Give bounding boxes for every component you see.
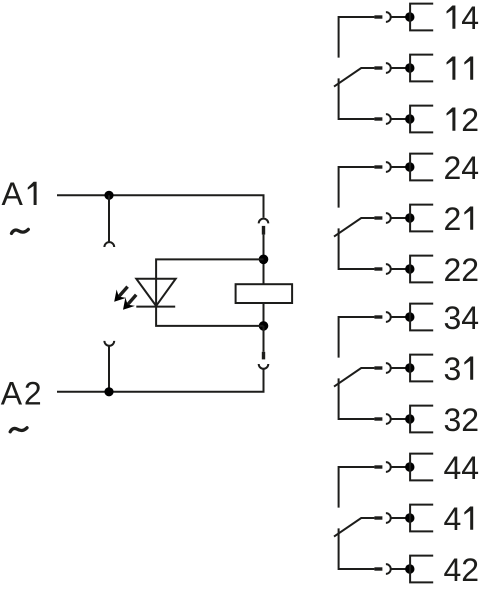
svg-text:2: 2 xyxy=(24,376,42,412)
svg-text:2: 2 xyxy=(461,402,479,438)
svg-text:2: 2 xyxy=(461,552,479,588)
svg-text:4: 4 xyxy=(461,150,479,186)
svg-text:4: 4 xyxy=(444,552,462,588)
svg-text:4: 4 xyxy=(461,0,479,36)
svg-text:3: 3 xyxy=(444,300,462,336)
svg-text:2: 2 xyxy=(461,102,479,138)
svg-text:A: A xyxy=(2,176,24,212)
svg-text:2: 2 xyxy=(444,201,462,237)
svg-text:A: A xyxy=(1,376,23,412)
svg-text:4: 4 xyxy=(461,300,479,336)
svg-text:4: 4 xyxy=(461,450,479,486)
svg-text:3: 3 xyxy=(444,351,462,387)
svg-text:4: 4 xyxy=(444,450,462,486)
svg-text:2: 2 xyxy=(444,150,462,186)
svg-text:4: 4 xyxy=(444,501,462,537)
svg-text:3: 3 xyxy=(444,402,462,438)
svg-text:2: 2 xyxy=(461,252,479,288)
svg-text:2: 2 xyxy=(444,252,462,288)
